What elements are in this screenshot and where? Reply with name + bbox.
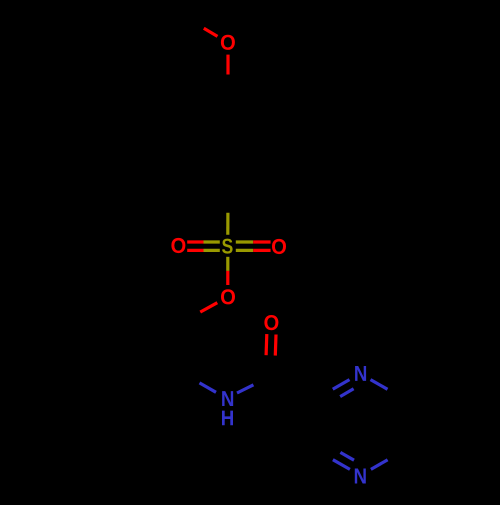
bond ring2 R1-R2 bbox=[96, 296, 140, 321]
bond O(methoxy)-C1 ring1 bbox=[226, 55, 229, 75]
atom N1 amide H label bbox=[222, 411, 233, 426]
bond C4-S bbox=[226, 191, 229, 213]
bond pyrazine C17-N2 bbox=[388, 389, 405, 399]
atom O3 sulfonyl O right label bbox=[272, 239, 286, 254]
bond C(methyl)-O(methoxy) bbox=[190, 20, 204, 28]
inner aromatic line ring1 C2=C3 bbox=[195, 125, 198, 160]
C=O line offset 1 bbox=[273, 356, 277, 377]
bond C13-C14 pyrazine attach bbox=[270, 377, 316, 400]
bond pyrazine N2-C14 bbox=[333, 380, 350, 390]
inner aromatic line ring2 R2=R3 bbox=[104, 329, 107, 366]
bond ring1 C1-C2 bbox=[186, 95, 228, 119]
bond ring2 C7-R1 bbox=[139, 296, 183, 321]
inner double line pyrazine N3=C15 bbox=[340, 452, 354, 460]
S=O right line offset -3.8 bbox=[236, 240, 253, 243]
S=O left line offset -3.8 bbox=[204, 240, 220, 243]
bond ring1 C3-C4 bbox=[186, 167, 228, 191]
atom N3 pyrazine N bottom label bbox=[355, 469, 366, 484]
bond S-O(ester) bbox=[226, 257, 229, 271]
atom N1 amide N label bbox=[222, 391, 233, 406]
inner aromatic line ring1 C1=C6 bbox=[229, 107, 259, 124]
inner aromatic line ring2 C7=R1 bbox=[140, 309, 172, 327]
atom O4 ester O label bbox=[221, 289, 235, 304]
bond ring1 C6-C1 bbox=[228, 95, 270, 119]
bond pyrazine C14-C15 bbox=[314, 399, 317, 450]
bond pyrazine N3-C16 bbox=[371, 460, 388, 470]
bond N(amide)-C13 carbonyl bbox=[237, 385, 254, 393]
S=O left line offset 4.6 bbox=[204, 249, 220, 252]
C=O line offset -1 bbox=[264, 355, 268, 376]
atom O2 sulfonyl O left label bbox=[171, 238, 185, 253]
bond ring2 C8-C7 bbox=[181, 322, 184, 374]
inner double line pyrazine C16=C17 bbox=[393, 406, 396, 444]
atom O5 carbonyl O label bbox=[264, 315, 278, 330]
bond ring1 C2-C3 bbox=[185, 119, 188, 167]
bond C8-N(amide) bbox=[183, 374, 200, 383]
inner double line pyrazine N2=C14 bbox=[340, 389, 354, 397]
bond ring2 R3-R4 bbox=[96, 374, 140, 399]
bond ring2 R2-R3 bbox=[94, 322, 97, 374]
inner aromatic line ring1 C4=C5 bbox=[229, 161, 259, 178]
bond O(ester)-C7 ring2 bbox=[200, 303, 217, 312]
bond ring1 C5-C6 bbox=[268, 119, 271, 167]
S=O right line offset 4.6 bbox=[236, 249, 253, 252]
bond pyrazine C16-C17 bbox=[403, 399, 406, 450]
atom N2 pyrazine N top label bbox=[355, 366, 366, 381]
bond ring2 R4-C8 bbox=[139, 374, 183, 399]
bond pyrazine C15-N3 bbox=[316, 450, 333, 460]
atom O1 methoxy O label bbox=[221, 35, 235, 50]
bond ring1 C4-C5 bbox=[228, 167, 270, 191]
atom S label bbox=[222, 239, 233, 254]
inner aromatic line ring2 R4=C8 bbox=[140, 368, 172, 386]
